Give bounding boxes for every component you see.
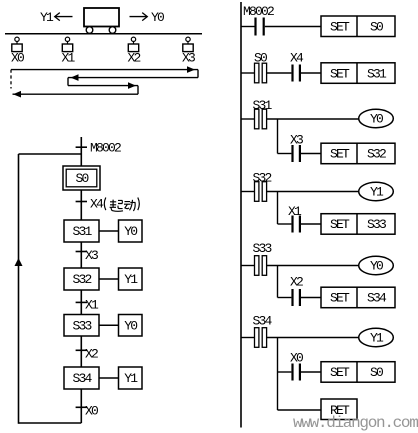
svg-text:X1: X1 [61,51,75,66]
limit switch X1 [61,37,75,65]
svg-text:M8002: M8002 [90,141,121,156]
step S34 [64,367,99,389]
travel path wire 2 left [68,74,198,85]
svg-text:S0: S0 [75,171,88,186]
svg-text:S31: S31 [72,224,92,239]
RET box [321,399,357,420]
svg-text:SET: SET [330,217,350,232]
ground line [5,33,202,35]
SFC return wire [15,154,82,424]
svg-text:S33: S33 [72,319,91,334]
SET S34 box [321,287,395,308]
SET S31 box (rung 2) [321,63,395,84]
svg-text:X0: X0 [85,404,98,419]
wire S33 to Y0 [99,324,119,326]
branch wire rung 3 [278,119,322,154]
transition X1 [76,298,99,313]
svg-text:X2: X2 [127,51,140,66]
svg-text:X0: X0 [11,51,24,66]
ladder left power rail [240,2,242,428]
svg-text:X3: X3 [182,51,195,66]
coil Y1 (rung 4) [359,182,394,200]
step S33 [64,315,99,337]
branch wire rung 6 [278,338,322,411]
limit switch X3 [182,37,195,65]
svg-text:S0: S0 [370,365,383,380]
svg-text:X2: X2 [290,275,303,290]
travel path wire 1 right [11,66,198,77]
action box Y1 (S32) [119,268,143,290]
travel path dashed start [10,70,12,89]
svg-text:S34: S34 [367,291,387,306]
STL contact S31 [253,98,273,129]
action box Y0 (S33) [119,315,143,337]
svg-text:Y0: Y0 [370,259,383,274]
SET S0 box (rung 1) [321,16,395,37]
svg-text:S0: S0 [370,20,383,35]
contact X3 [290,133,303,163]
svg-text:X2: X2 [85,347,98,362]
transition X3 [76,248,98,263]
action box Y1 (S34) [119,367,143,389]
transition X4 (start) [76,197,140,212]
rung 3 wire [241,118,359,120]
svg-text:S33: S33 [253,241,272,256]
STL contact S34 [253,314,273,348]
branch wire rung 5 [278,266,322,298]
svg-text:S33: S33 [367,217,386,232]
wire S34 to Y1 [99,377,119,379]
SET S32 box [321,143,395,164]
step S31 [64,220,99,242]
contact X2 [290,275,303,307]
svg-text:Y1: Y1 [40,10,54,25]
svg-text:X4: X4 [90,197,104,212]
svg-text:www.diangon.com: www.diangon.com [293,414,418,432]
transition X0 [76,404,98,419]
rung 2 wire [241,72,321,74]
limit switch X2 [127,37,140,65]
step S32 [64,268,99,290]
svg-text:Y0: Y0 [151,10,164,25]
wire S32 to Y1 [99,278,119,280]
step S0 [63,166,100,190]
coil Y1 (rung 6) [359,328,394,346]
rung 4 wire [241,191,359,193]
contact X4 [290,51,304,82]
contact M8002 [243,4,274,36]
STL contact S33 [253,241,272,275]
svg-text:M8002: M8002 [243,4,274,19]
branch wire rung 4 [278,192,322,225]
svg-text:X4: X4 [290,51,304,66]
SET S0 box (rung 6) [321,362,395,383]
svg-text:SET: SET [330,365,350,380]
svg-text:Y0: Y0 [124,319,137,334]
coil Y0 (rung 3) [359,109,394,127]
svg-text:Y0: Y0 [370,112,383,127]
rung 5 wire [241,265,359,267]
svg-text:Y1: Y1 [124,272,138,287]
contact X1 [288,204,302,233]
transition M8002 [76,141,121,156]
limit switch X0 [11,37,24,65]
SFC spine wire [80,137,82,423]
rung 6 wire [241,337,359,339]
arrow right Y0 [130,13,148,21]
svg-text:S34: S34 [72,371,92,386]
svg-text:Y1: Y1 [370,185,384,200]
travel path wire 3 right [68,82,138,94]
svg-text:Y1: Y1 [370,331,384,346]
svg-text:S31: S31 [367,66,387,81]
rung 1 wire [241,26,321,28]
svg-text:SET: SET [330,66,350,81]
svg-text:Y1: Y1 [124,371,138,386]
svg-text:S32: S32 [367,147,386,162]
wire S31 to Y0 [99,230,119,232]
svg-text:X0: X0 [290,351,303,366]
svg-text:X3: X3 [85,248,98,263]
svg-text:X1: X1 [85,298,99,313]
arrow left Y1 [55,13,73,21]
svg-text:SET: SET [330,20,350,35]
svg-text:SET: SET [330,291,350,306]
svg-text:S34: S34 [253,314,273,329]
STL contact S32 [253,171,272,202]
wire to RET [278,409,322,411]
transition X2 [76,347,98,362]
SET S33 box [321,214,395,235]
svg-text:S32: S32 [72,272,91,287]
contact X0 [290,351,303,381]
svg-text:SET: SET [330,147,350,162]
travel path wire 4 left [13,91,139,98]
STL contact S0 [254,51,267,83]
cart M [84,8,119,33]
coil Y0 (rung 5) [359,256,394,274]
svg-text:Y0: Y0 [124,224,137,239]
action box Y0 (S31) [119,220,143,242]
